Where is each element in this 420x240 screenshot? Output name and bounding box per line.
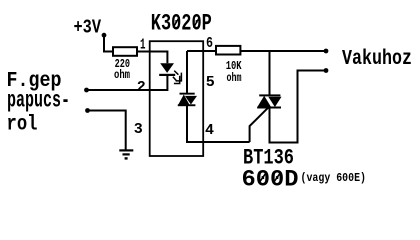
triac Q1 BT136 bbox=[257, 94, 281, 108]
wire input terminal 2 to ground bbox=[88, 111, 126, 151]
resistor R2 10K bbox=[216, 46, 240, 55]
opto light arrow 2 bbox=[173, 76, 180, 84]
wire triac T1 down and to right riser bbox=[270, 71, 327, 143]
node input terminal 2 dot bbox=[85, 108, 90, 113]
phototriac U1 output element bbox=[178, 93, 197, 107]
resistor R1 220 ohm bbox=[113, 47, 137, 56]
ground symbol bbox=[119, 149, 133, 159]
wire gate of BT136 to pin 4 bbox=[250, 108, 268, 142]
opto light arrow 1 bbox=[174, 71, 181, 81]
svg-text:+3V: +3V bbox=[74, 16, 102, 38]
wire R1 to LED anode (pin 1) bbox=[137, 52, 167, 64]
wire pin 6 out to resistor R2 bbox=[187, 50, 216, 52]
svg-text:(vagy 600E): (vagy 600E) bbox=[301, 171, 367, 185]
wire triac T2 riser bbox=[269, 51, 271, 95]
svg-text:Vakuhoz: Vakuhoz bbox=[342, 48, 412, 71]
node +3V supply dot bbox=[102, 33, 107, 38]
svg-text:6: 6 bbox=[206, 35, 213, 52]
wire phototriac bottom to pin 4 bbox=[187, 106, 250, 142]
node input terminal 1 dot bbox=[84, 88, 89, 93]
svg-text:4: 4 bbox=[205, 122, 214, 139]
wire LED cathode to pin 2 bbox=[87, 76, 168, 90]
svg-text:ohm: ohm bbox=[227, 71, 242, 85]
svg-text:1: 1 bbox=[140, 36, 146, 53]
svg-text:papucs-: papucs- bbox=[7, 88, 70, 114]
optocoupler U1 K3020P body bbox=[150, 41, 204, 156]
svg-text:rol: rol bbox=[7, 114, 38, 137]
svg-text:600D: 600D bbox=[242, 167, 299, 193]
wire pin 6 to phototriac top bbox=[186, 51, 188, 93]
wire +3V to resistor R1 bbox=[104, 37, 113, 52]
svg-text:K3020P: K3020P bbox=[151, 11, 212, 37]
LED D1 inside optocoupler bbox=[159, 63, 175, 76]
node output terminal top dot bbox=[324, 49, 329, 54]
svg-text:ohm: ohm bbox=[114, 68, 130, 82]
wire R2 to output terminal bbox=[240, 50, 326, 52]
svg-text:5: 5 bbox=[206, 74, 215, 91]
node output terminal bottom dot bbox=[324, 68, 329, 73]
svg-text:2: 2 bbox=[137, 79, 146, 96]
svg-text:3: 3 bbox=[134, 121, 143, 138]
